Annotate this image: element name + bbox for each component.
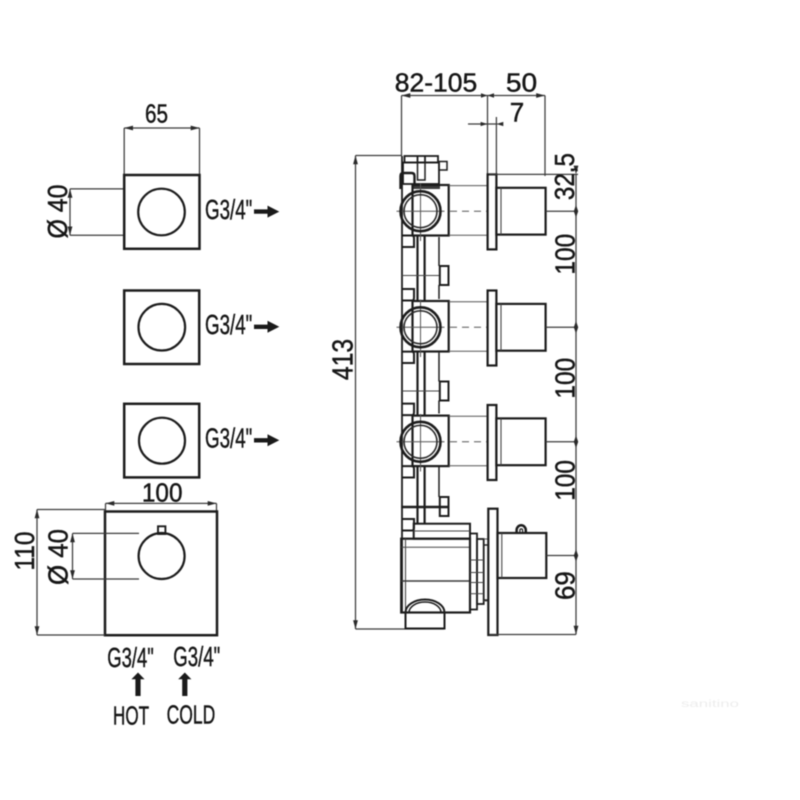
pipe 1-2 mid line [402, 275, 440, 277]
pipe 1-2 clip top [402, 236, 414, 248]
svg-text:100: 100 [550, 234, 581, 275]
knob circle C2 [139, 304, 186, 351]
thermostat main block lower inner line [401, 580, 470, 582]
valve3 trim plate [488, 405, 497, 480]
thermostat bottom block [406, 613, 445, 629]
svg-text:65: 65 [145, 99, 168, 129]
valve2 trim plate [488, 291, 497, 366]
valve3 stem lines [449, 416, 488, 466]
svg-text:HOT: HOT [113, 701, 149, 731]
pipe 2-3 mid line [402, 390, 440, 392]
valve3 port outer circle [401, 422, 441, 462]
pipe 1-2 nut [440, 266, 449, 285]
valve1 trim plate [488, 174, 497, 249]
svg-text:COLD: COLD [167, 700, 216, 730]
valve2 body [413, 301, 449, 352]
pipe 1-2 nut stem [438, 237, 440, 266]
thermostat handle nub arch [517, 525, 526, 533]
dimension 110 lines [37, 510, 105, 636]
valve1 handle [496, 188, 545, 235]
svg-text:G3/4": G3/4" [173, 641, 220, 672]
pipe 2-3 nut [440, 382, 449, 401]
valve1 port outer circle [401, 191, 441, 231]
dimension 65 line [124, 128, 199, 174]
dimension 7 arrowheads [481, 122, 504, 126]
dimension 100 line [106, 503, 217, 511]
dimension top arrowheads [402, 93, 546, 98]
svg-text:7: 7 [510, 98, 525, 128]
thermostat bottom arch outer [406, 600, 445, 613]
thermostat plate big square [105, 512, 217, 636]
thermostat top section [414, 524, 470, 539]
valve3 port inner circle [404, 425, 437, 458]
pipe 1-2 clip bottom [402, 289, 414, 301]
dimension Ø40 (top) lines [70, 189, 123, 235]
valve1 port inner circle [404, 195, 437, 228]
dimension Ø40 (bottom) lines [73, 533, 140, 579]
svg-text:110: 110 [9, 532, 40, 571]
thermostat top section inner line [414, 530, 470, 532]
svg-text:100: 100 [550, 460, 581, 501]
top fitting clip [401, 173, 415, 189]
thermostat cartridge lines [470, 560, 484, 594]
thermostat cartridge stack inner [477, 539, 484, 604]
valve2 handle base line [500, 304, 502, 351]
thermostat bracket line [401, 506, 448, 509]
thermostat stem lines [484, 539, 489, 601]
thermostat cartridge stack small [484, 545, 489, 600]
pipe 3-T clip bottom [402, 519, 414, 531]
pipe segment 1-2 [418, 236, 425, 302]
dimension 65 arrowheads [124, 126, 199, 131]
svg-text:32,5: 32,5 [549, 153, 580, 200]
valve2 handle [496, 304, 545, 351]
valve2 port outer circle [401, 307, 441, 347]
thermostat main block inner horizontal line [401, 546, 470, 548]
top fitting dark band [412, 185, 441, 190]
valve3 handle base line [500, 418, 502, 465]
valve3 body [413, 416, 449, 467]
thermostat main block inner vertical line [405, 539, 407, 613]
svg-text:50: 50 [506, 68, 537, 98]
valve1 crosshair [397, 184, 445, 242]
svg-text:Ø 40: Ø 40 [43, 529, 74, 585]
thermostat knob tab [158, 526, 165, 534]
dimension 100 arrowheads [106, 501, 217, 506]
svg-text:69: 69 [550, 571, 581, 600]
right stack tick marks [574, 166, 579, 635]
top inlet fitting [403, 156, 447, 184]
dimension 413 arrowheads [353, 156, 358, 630]
arrow right no.3 [254, 434, 279, 446]
svg-text:82-105: 82-105 [395, 68, 478, 98]
pipe 2-3 clip bottom [402, 404, 414, 416]
svg-text:G3/4": G3/4" [205, 309, 252, 340]
dimension 413 line [356, 156, 445, 630]
thermostat cartridge stack outer [470, 534, 477, 610]
thermostat trim plate [488, 509, 497, 635]
dimension 110 arrowheads [35, 510, 40, 636]
pipe segment 2-3 [418, 352, 425, 416]
valve1 body [413, 185, 449, 236]
main body left edge line [401, 156, 403, 613]
arrow up cold [178, 673, 191, 697]
dimension 7 leader line [468, 117, 498, 174]
thermostat bottom arch inner [409, 602, 441, 613]
svg-text:sanitino: sanitino [681, 699, 740, 710]
pipe segment 3-T [418, 466, 425, 524]
valve1 handle base line [500, 188, 502, 235]
valve3 crosshair [397, 414, 445, 472]
arrow up hot [131, 673, 144, 697]
knob circle C3 [139, 418, 185, 464]
pipe 2-3 nut stem [438, 353, 440, 382]
pipe 2-3 clip top [402, 352, 414, 363]
arrow right no.1 [254, 206, 279, 218]
plate square S3 [124, 404, 199, 478]
pipe 3-T clip top [402, 466, 414, 477]
svg-text:G3/4": G3/4" [205, 423, 252, 454]
valve2 port inner circle [404, 311, 437, 344]
dimension top line 82-105 / 50 [402, 96, 546, 177]
pipe 3-T nut [440, 497, 449, 516]
thermostat handle [498, 533, 547, 578]
knob circle C1 [138, 189, 185, 236]
right stack dimension line [489, 174, 578, 634]
valve1 stem lines [449, 186, 488, 236]
svg-text:413: 413 [328, 339, 360, 380]
thermostat handle base line [501, 533, 503, 578]
svg-text:G3/4": G3/4" [107, 642, 154, 673]
valve3 handle [496, 418, 545, 465]
plate square S1 [124, 175, 199, 249]
svg-text:Ø 40: Ø 40 [42, 185, 73, 239]
dimension Ø40 (top) arrowheads [68, 189, 73, 235]
thermostat handle nub arch inner [520, 529, 523, 534]
svg-text:100: 100 [550, 358, 581, 399]
thermostat main block [401, 539, 470, 613]
valve2 stem lines [449, 302, 488, 352]
arrow right no.2 [254, 321, 279, 333]
pipe 3-T nut stem [438, 467, 440, 497]
valve2 crosshair [397, 300, 445, 358]
thermostat knob circle [139, 533, 185, 579]
plate square S2 [124, 291, 199, 365]
dimension Ø40 (bottom) arrowheads [70, 533, 75, 579]
svg-text:G3/4": G3/4" [205, 194, 252, 225]
